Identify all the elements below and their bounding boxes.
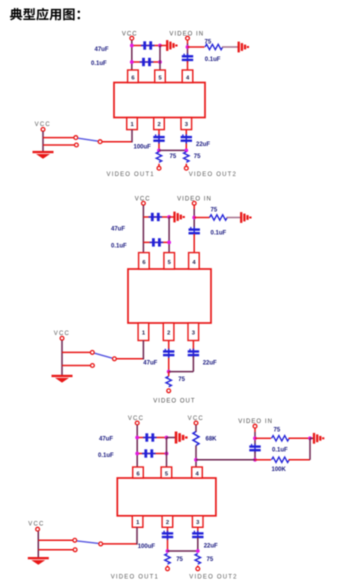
node junction	[184, 149, 188, 153]
VCC symbol (top, circuit 1)	[122, 31, 138, 40]
wire VIDEO IN down	[193, 205, 195, 227]
wire to pin 4	[193, 234, 195, 253]
op-amp U3 body	[117, 478, 216, 516]
wire branch 47uF	[137, 437, 166, 439]
svg-text:22uF: 22uF	[196, 142, 210, 148]
wire pin 5	[166, 438, 168, 468]
node junction	[167, 215, 171, 219]
node junction	[196, 549, 200, 553]
title 典型应用图:	[10, 8, 80, 21]
svg-text:2: 2	[166, 520, 169, 526]
capacitor 0.1uF input c2	[189, 227, 200, 236]
ground (sideways, right c2)	[241, 212, 250, 223]
wire pin 5	[168, 217, 170, 253]
wire to out1	[167, 566, 169, 567]
node junction	[135, 436, 139, 440]
wire to resistor	[194, 217, 209, 219]
capacitor 0.1uF	[150, 238, 164, 246]
resistor 68K	[193, 432, 199, 446]
pin 3 box c3	[192, 516, 203, 528]
pin 6 box	[128, 70, 139, 83]
svg-text:47uF: 47uF	[111, 227, 125, 233]
switch SW1	[74, 136, 102, 144]
capacitor 22uF	[181, 134, 192, 143]
wire VCC down	[42, 132, 44, 152]
VCC symbol (top left, circuit 3)	[128, 416, 144, 425]
wire to resistor	[188, 46, 205, 48]
node junction	[135, 452, 139, 456]
pin 1 box c2	[138, 323, 149, 341]
pin 1 box c3	[132, 516, 143, 528]
pin 2 box c2	[163, 323, 174, 341]
svg-text:VCC: VCC	[28, 522, 44, 528]
node junction	[157, 149, 161, 153]
wire ground throw B	[38, 548, 77, 552]
svg-text:100uF: 100uF	[134, 144, 152, 150]
switch SW2	[90, 351, 116, 361]
pin 5 box c3	[161, 467, 172, 478]
VIDEO OUT1 terminal c3	[111, 567, 170, 581]
node junction	[158, 44, 162, 48]
VCC symbol (switch, circuit 3)	[28, 522, 44, 532]
capacitor 0.1uF c3	[142, 449, 156, 457]
capacitor 100uF c3	[162, 531, 173, 540]
wire pin 3 down	[192, 341, 194, 357]
VCC symbol (bias, circuit 3)	[188, 416, 204, 425]
wire resistor to ground	[222, 46, 239, 48]
ground (sideways, VCC rail c2)	[169, 212, 184, 223]
wire to pin 4	[187, 61, 189, 71]
wire switch to pin 1	[117, 341, 144, 360]
op-amp U2 body	[128, 269, 211, 323]
resistor 75 out1 c3	[165, 554, 170, 565]
svg-text:47uF: 47uF	[99, 436, 113, 442]
wire resistor to ground node	[289, 437, 311, 439]
op-amp U1 body	[114, 83, 205, 118]
svg-text:75: 75	[211, 208, 218, 214]
ground (earth, circuit 3)	[28, 557, 49, 565]
wire branch 47uF	[132, 45, 160, 47]
wire VCC to resistor	[195, 425, 197, 432]
wire pin3 cap to junction	[169, 356, 194, 372]
wire ground throw B	[62, 364, 94, 368]
node junction	[158, 60, 162, 64]
wire to switch throw A	[62, 351, 90, 353]
wire VIDEO IN down	[254, 428, 256, 445]
capacitor 22uF c3	[192, 531, 203, 540]
capacitor 100uF	[153, 134, 164, 143]
capacitor 47uF	[149, 213, 163, 221]
pin 1 box	[127, 118, 138, 130]
svg-text:75: 75	[205, 39, 212, 45]
pin 4 box	[182, 70, 193, 83]
pin 5 box c2	[164, 253, 175, 269]
node junction	[186, 45, 190, 49]
resistor 75 out1	[156, 152, 161, 163]
wire pin 2 down	[158, 130, 160, 151]
svg-text:0.1uF: 0.1uF	[205, 57, 221, 63]
VIDEO IN terminal	[169, 31, 204, 40]
svg-text:75: 75	[178, 377, 185, 383]
svg-text:0.1uF: 0.1uF	[272, 448, 288, 454]
pin 4 box c2	[189, 253, 200, 269]
wire to switch throw A	[38, 539, 72, 541]
VIDEO IN terminal c3	[238, 419, 273, 428]
wire to switch throw A	[43, 137, 74, 139]
pin 2 box	[154, 118, 165, 130]
VCC symbol (switch, circuit 2)	[54, 331, 70, 340]
svg-text:100uF: 100uF	[138, 544, 156, 550]
node junction	[130, 44, 134, 48]
node junction	[253, 458, 257, 462]
wire junction to pin 4	[196, 459, 255, 461]
wire VIDEO IN down	[187, 40, 189, 43]
VIDEO OUT terminal	[153, 389, 195, 404]
wire switch to pin 1	[102, 130, 132, 143]
svg-text:75: 75	[274, 427, 281, 433]
VIDEO OUT2 terminal c3	[189, 567, 237, 581]
resistor 75 out2 c3	[195, 554, 200, 565]
wire pin 3 down	[197, 527, 199, 532]
pin 6 box c3	[133, 467, 144, 478]
capacitor 47uF	[141, 41, 155, 49]
wire branch 0.1uF	[137, 453, 166, 455]
svg-text:2: 2	[167, 331, 170, 337]
node junction	[166, 549, 170, 553]
VCC symbol (switch, circuit 1)	[35, 122, 51, 131]
wire switch to pin 1	[103, 527, 137, 544]
ground (sideways, right c3)	[310, 433, 323, 444]
resistor 75 output	[166, 376, 171, 387]
node junction	[130, 60, 134, 64]
pin 5 box	[155, 70, 166, 83]
wire to pin 5	[159, 46, 161, 71]
wire junction to junction	[168, 550, 198, 552]
pin 3 box	[181, 118, 192, 130]
wire branch 47uF	[143, 216, 169, 218]
pin 4 box c3	[192, 467, 203, 478]
wire VCC to pin 6	[142, 205, 144, 253]
wire 100K to ground node	[289, 438, 311, 460]
svg-text:VCC: VCC	[122, 31, 138, 37]
ground (earth, circuit 2)	[52, 375, 73, 383]
wire VCC to pin 6	[136, 425, 138, 467]
wire pin 2 down	[168, 341, 170, 372]
node junction	[165, 452, 169, 456]
svg-text:0.1uF: 0.1uF	[211, 231, 227, 237]
svg-text:47uF: 47uF	[95, 47, 109, 53]
svg-text:VIDEO OUT: VIDEO OUT	[153, 398, 195, 404]
svg-text:22uF: 22uF	[204, 543, 218, 549]
wire resistor to ground	[227, 217, 242, 219]
wire to resistor 75	[255, 437, 271, 439]
wire branch 0.1uF	[143, 241, 169, 243]
pin 6 box c2	[139, 253, 150, 269]
wire junction to 100K	[255, 459, 271, 461]
wire	[187, 44, 189, 56]
capacitor 0.1uF input c3	[249, 444, 260, 453]
node junction	[192, 216, 196, 220]
capacitor 22uF output	[188, 349, 199, 358]
node junction	[253, 436, 257, 440]
VIDEO IN terminal c2	[177, 197, 212, 206]
resistor 75 (input termination)	[205, 44, 223, 49]
wire resistor to pin 4	[195, 446, 197, 468]
svg-text:0.1uF: 0.1uF	[98, 453, 114, 459]
node junction	[165, 436, 169, 440]
svg-text:VIDEO OUT2: VIDEO OUT2	[189, 574, 237, 580]
svg-text:VIDEO OUT1: VIDEO OUT1	[107, 172, 155, 178]
svg-text:100K: 100K	[272, 467, 287, 473]
svg-text:68K: 68K	[206, 437, 218, 443]
resistor 75 input c2	[210, 215, 228, 220]
wire to out2 terminal	[185, 164, 187, 166]
VIDEO OUT2 terminal	[184, 166, 237, 178]
wire to out terminal	[168, 372, 170, 377]
svg-text:2: 2	[157, 122, 160, 128]
wire to out2	[197, 566, 199, 567]
svg-text:0.1uF: 0.1uF	[91, 61, 107, 67]
wire VCC down	[37, 531, 39, 557]
wire VCC down	[61, 340, 63, 375]
svg-text:22uF: 22uF	[203, 361, 217, 367]
svg-text:VIDEO OUT2: VIDEO OUT2	[189, 172, 237, 178]
node junction	[194, 458, 198, 462]
switch SW3	[73, 538, 103, 545]
svg-text:75: 75	[170, 154, 177, 160]
VIDEO OUT1 terminal	[107, 166, 161, 178]
wire pin 3 down	[185, 130, 187, 151]
wire ground throw B	[43, 143, 78, 147]
svg-text:75: 75	[176, 557, 183, 563]
ground (sideways, right)	[239, 42, 248, 53]
VCC symbol (top, circuit 2)	[135, 197, 151, 206]
svg-text:75: 75	[207, 557, 214, 563]
capacitor 0.1uF	[140, 58, 154, 66]
wire branch 0.1uF	[132, 61, 160, 63]
ground (sideways, VCC rail c3)	[167, 431, 187, 443]
node junction	[167, 241, 171, 245]
capacitor 47uF output	[163, 349, 174, 358]
resistor 75 out2	[184, 152, 189, 163]
ground (earth, circuit 1)	[33, 151, 54, 159]
node junction	[308, 436, 312, 440]
node junction	[167, 370, 171, 374]
resistor 75 input c3	[272, 436, 290, 441]
wire cap to junction	[197, 538, 199, 552]
resistor 100K	[272, 457, 290, 462]
svg-text:0.1uF: 0.1uF	[111, 244, 127, 250]
capacitor 47uF c3	[143, 433, 157, 441]
svg-text:VIDEO OUT1: VIDEO OUT1	[111, 574, 159, 580]
capacitor 0.1uF input	[182, 53, 193, 62]
pin 2 box c3	[162, 516, 173, 528]
ground (sideways, VCC rail)	[160, 40, 176, 51]
wire junction to junction	[159, 149, 186, 151]
pin 3 box c2	[188, 323, 199, 341]
wire to out1 terminal	[158, 164, 160, 166]
wire cap to junction	[254, 452, 256, 460]
wire pin 2 down	[167, 527, 169, 551]
svg-text:75: 75	[194, 154, 201, 160]
svg-text:47uF: 47uF	[143, 361, 157, 367]
wire VCC to pin 6	[131, 40, 133, 70]
